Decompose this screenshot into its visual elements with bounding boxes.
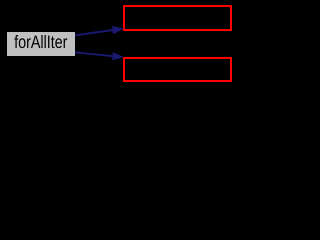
edge to bottom node bbox=[75, 52, 123, 59]
node forAllIter bbox=[7, 32, 75, 56]
edge to top node bbox=[75, 27, 123, 36]
node top (truncated, red border) bbox=[124, 6, 231, 30]
node bottom (truncated, red border) bbox=[124, 58, 231, 81]
